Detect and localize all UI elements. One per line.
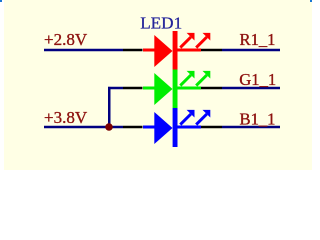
LED1 green element cathode bar (173, 70, 178, 109)
net label +3.8V (44, 108, 88, 127)
schematic sheet background (4, 0, 312, 170)
LED1 red element emission arrow 2 (196, 33, 210, 48)
wire vertical +3.8V branch (108, 87, 111, 127)
svg-text:G1_1: G1_1 (239, 70, 276, 89)
LED1 red element cathode lead (178, 49, 202, 52)
junction (105, 123, 113, 131)
LED1 green element emission arrow 2 (196, 71, 210, 86)
LED1 green element triangle (154, 73, 172, 105)
wire LED1 red cathode to R1_1 (222, 49, 280, 52)
LED1 blue element anode lead (143, 126, 156, 129)
net label G1_1 (239, 70, 276, 89)
LED1 green element anode lead (143, 87, 156, 90)
svg-text:LED1: LED1 (140, 13, 182, 32)
LED1 red element anode lead (143, 49, 156, 52)
pin 2 of LED1 (green anode) (123, 87, 143, 90)
svg-text:+3.8V: +3.8V (44, 108, 88, 127)
top-right corner artifact (310, 0, 312, 2)
pin 6 of LED1 (blue cathode) (201, 126, 223, 129)
LED1 blue element triangle (154, 112, 172, 144)
pin 3 of LED1 (blue anode) (123, 126, 143, 129)
LED1 green element emission arrow 1 (180, 71, 194, 86)
wire to LED1 green anode pin (108, 87, 123, 90)
wire +3.8V to LED1 blue anode pin (44, 126, 123, 129)
pin 5 of LED1 (green cathode) (201, 87, 223, 90)
wire LED1 blue cathode to B1_1 (222, 126, 280, 129)
svg-text:B1_1: B1_1 (240, 109, 276, 128)
LED1 blue element emission arrow 2 (196, 110, 210, 125)
LED1 red element emission arrow 1 (180, 33, 194, 48)
LED1 green element cathode lead (178, 87, 202, 90)
wire LED1 green cathode to G1_1 (222, 87, 280, 90)
LED1 red element triangle (154, 35, 172, 67)
LED1 blue element cathode bar (173, 108, 178, 147)
net label +2.8V (44, 30, 88, 49)
designator LED1 (140, 13, 182, 32)
net label R1_1 (240, 30, 276, 49)
top-left corner artifact (0, 0, 2, 2)
wire +2.8V to LED1 red anode pin (44, 49, 123, 52)
svg-text:+2.8V: +2.8V (44, 30, 88, 49)
pin 1 of LED1 (red anode) (123, 49, 143, 52)
pin 4 of LED1 (red cathode) (201, 49, 223, 52)
LED1 blue element emission arrow 1 (180, 110, 194, 125)
LED1 blue element cathode lead (178, 126, 202, 129)
svg-text:R1_1: R1_1 (240, 30, 276, 49)
LED1 red element cathode bar (173, 31, 178, 70)
net label B1_1 (240, 109, 276, 128)
